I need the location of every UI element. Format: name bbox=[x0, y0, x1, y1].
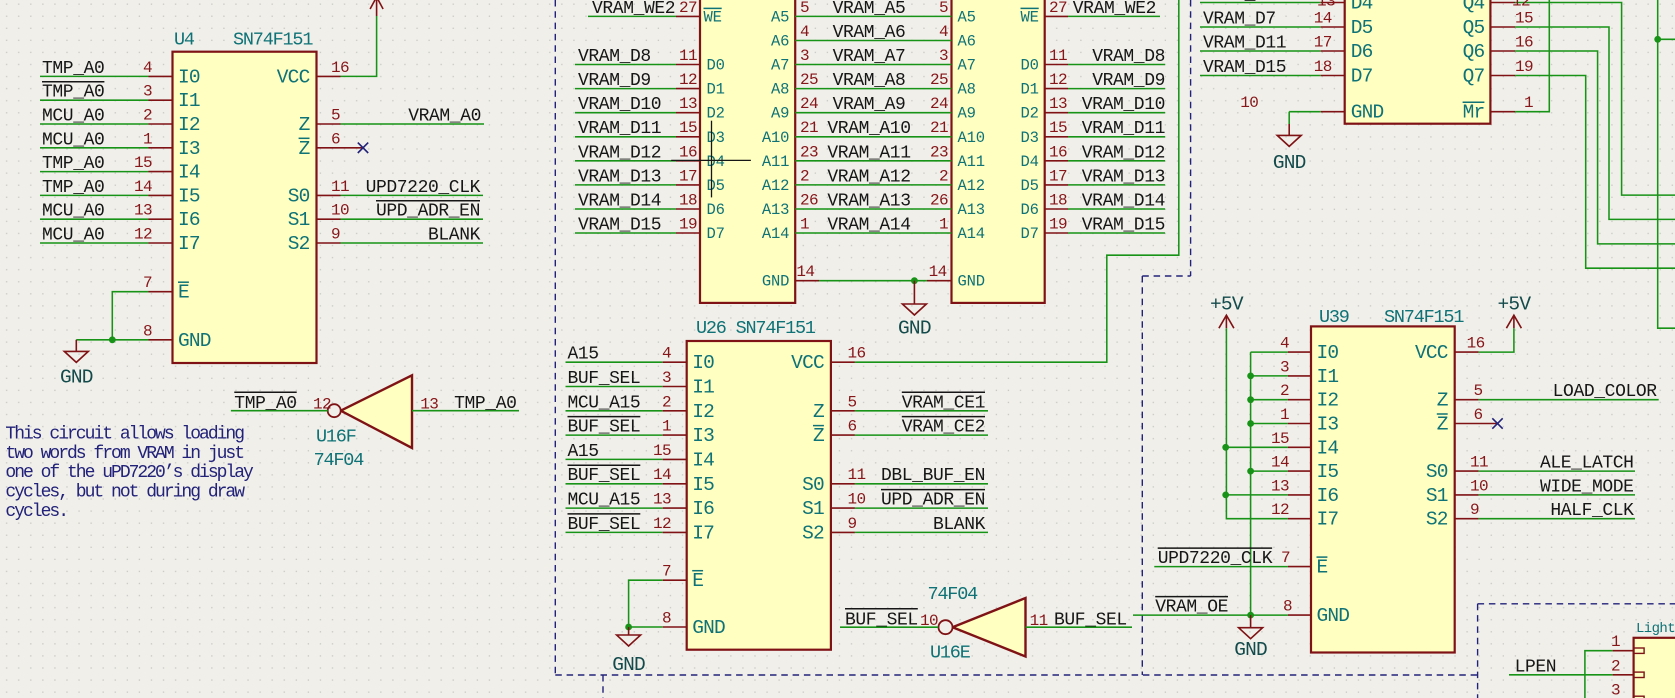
wire ground rail right vertical bbox=[1250, 352, 1252, 615]
connector pin 2 bbox=[1611, 657, 1644, 677]
svg-text:2: 2 bbox=[662, 393, 671, 411]
svg-text:4: 4 bbox=[1280, 335, 1289, 353]
label VRAM_D11 (right) bbox=[1082, 119, 1165, 139]
U26 pin 8 (GND) bbox=[629, 610, 725, 640]
svg-text:+5V: +5V bbox=[1210, 294, 1244, 316]
svg-text:27: 27 bbox=[1049, 0, 1067, 17]
svg-text:A7: A7 bbox=[958, 57, 976, 75]
svg-text:U16E: U16E bbox=[930, 643, 971, 664]
RAM2 pin 18 (D6) wire bbox=[1020, 192, 1165, 220]
svg-text:A12: A12 bbox=[958, 177, 985, 195]
svg-text:D7: D7 bbox=[1351, 66, 1373, 88]
svg-text:I3: I3 bbox=[692, 425, 714, 447]
svg-text:3: 3 bbox=[662, 369, 671, 387]
label BUF_SEL bbox=[568, 369, 641, 389]
register pin 13 number fragment bbox=[1317, 0, 1335, 11]
svg-text:D7: D7 bbox=[707, 225, 725, 243]
register pin 14 (D5) bbox=[1314, 10, 1373, 40]
svg-text:11: 11 bbox=[1049, 47, 1067, 65]
svg-text:TMP_A0: TMP_A0 bbox=[234, 394, 296, 414]
RAM2 pin 15 (D3) wire bbox=[1020, 119, 1165, 147]
svg-text:I7: I7 bbox=[1317, 509, 1339, 531]
svg-text:A9: A9 bbox=[958, 105, 976, 123]
RAM1 pin 15 (D3) bbox=[676, 119, 725, 147]
svg-text:MCU_A15: MCU_A15 bbox=[568, 491, 641, 511]
svg-text:VRAM_A5: VRAM_A5 bbox=[833, 0, 906, 19]
label TMP_A0 bbox=[42, 178, 104, 198]
RAM1/RAM2 A10 pins 21 bbox=[762, 119, 985, 147]
label VRAM_D8 (right) bbox=[1092, 47, 1165, 67]
label UPD_ADR_EN bbox=[881, 490, 985, 511]
svg-text:I4: I4 bbox=[692, 449, 714, 471]
svg-text:WE: WE bbox=[704, 8, 722, 26]
svg-text:6: 6 bbox=[331, 130, 340, 148]
label VRAM_D11 bbox=[1203, 34, 1286, 54]
U4 pin 9 (S2) wire bbox=[288, 226, 483, 256]
svg-text:13: 13 bbox=[134, 202, 152, 220]
svg-text:1: 1 bbox=[800, 216, 809, 234]
wire U16F pin 13 output TMP_A0 bbox=[412, 396, 519, 414]
svg-text:VRAM_A8: VRAM_A8 bbox=[833, 71, 906, 91]
svg-text:14: 14 bbox=[1271, 454, 1289, 472]
label VRAM_D12 bbox=[578, 143, 661, 163]
U26 pin 13 (I6) bbox=[653, 491, 714, 520]
RAM2 pin 27 (WE) wire VRAM_WE2 bbox=[1020, 0, 1160, 26]
svg-text:Z: Z bbox=[813, 401, 824, 423]
U39 pin 15 (I4) wire bbox=[1226, 430, 1339, 460]
svg-text:SN74F151: SN74F151 bbox=[1384, 307, 1464, 328]
svg-text:GND: GND bbox=[60, 366, 93, 388]
svg-text:1: 1 bbox=[143, 130, 152, 148]
svg-text:VRAM_A14: VRAM_A14 bbox=[827, 216, 910, 236]
svg-text:10: 10 bbox=[1240, 94, 1258, 112]
U26 pin 12 (I7) bbox=[653, 515, 714, 545]
svg-text:I2: I2 bbox=[178, 114, 200, 136]
label VRAM_WE2 (right) bbox=[1073, 0, 1156, 19]
svg-text:VRAM_D7: VRAM_D7 bbox=[1203, 10, 1276, 30]
label MCU_A15 bbox=[568, 491, 641, 511]
svg-text:I7: I7 bbox=[692, 522, 714, 544]
svg-text:I6: I6 bbox=[178, 209, 200, 231]
op-amp U4 body bbox=[173, 52, 317, 363]
label BUF_SEL bbox=[568, 514, 641, 535]
svg-text:5: 5 bbox=[1474, 382, 1483, 400]
junction at U26 ground bbox=[625, 624, 632, 631]
svg-text:8: 8 bbox=[1283, 598, 1292, 616]
svg-text:10: 10 bbox=[920, 612, 938, 630]
RAM1/RAM2 A6 pins 4 bbox=[771, 23, 976, 51]
label TMP_A0 (output) bbox=[454, 394, 516, 414]
label VRAM_WE2 bbox=[592, 0, 675, 19]
U39 pin 5 (Z) wire LOAD_COLOR bbox=[1437, 382, 1659, 412]
svg-text:A15: A15 bbox=[568, 442, 599, 462]
register pin 17 (D6) bbox=[1314, 34, 1373, 64]
svg-text:8: 8 bbox=[662, 610, 671, 628]
label VRAM_D9 (right) bbox=[1092, 71, 1165, 91]
U39 pin 9 (S2) wire bbox=[1426, 501, 1635, 531]
svg-text:3: 3 bbox=[939, 47, 948, 65]
svg-text:6: 6 bbox=[1474, 406, 1483, 424]
svg-text:VRAM_A6: VRAM_A6 bbox=[833, 23, 906, 43]
svg-text:A11: A11 bbox=[762, 153, 789, 171]
svg-text:A14: A14 bbox=[762, 225, 789, 243]
power +5V (right of U39) bbox=[1498, 294, 1532, 329]
svg-text:GND: GND bbox=[1317, 605, 1350, 627]
svg-text:D4: D4 bbox=[1351, 0, 1373, 15]
wire VRAM_D3 to register D4 bbox=[1200, 2, 1321, 4]
inverter U16F 74F04 bbox=[328, 375, 412, 448]
svg-text:5: 5 bbox=[800, 0, 809, 17]
no-connect X on U39 pin 6 bbox=[1492, 418, 1502, 428]
svg-text:D5: D5 bbox=[707, 177, 725, 195]
ground symbol GND (RAM) bbox=[898, 281, 931, 340]
svg-text:VRAM_A9: VRAM_A9 bbox=[833, 95, 906, 115]
svg-text:I1: I1 bbox=[178, 90, 200, 112]
svg-text:LOAD_COLOR: LOAD_COLOR bbox=[1553, 382, 1658, 402]
wire BUF_SELbar into U16E pin 10 bbox=[840, 612, 938, 630]
svg-text:VRAM_D10: VRAM_D10 bbox=[1082, 95, 1165, 115]
wire A15 to U26 pin 15 bbox=[566, 458, 663, 460]
wire A15 to U26 pin 4 bbox=[566, 361, 663, 363]
svg-text:GND: GND bbox=[612, 654, 645, 676]
RAM1/RAM2 A8 pins 25 bbox=[771, 71, 976, 99]
connector pin 1 bbox=[1611, 633, 1644, 653]
svg-text:25: 25 bbox=[800, 71, 818, 89]
svg-text:S2: S2 bbox=[802, 522, 824, 544]
wire BUF_SEL to U26 pin 3 bbox=[566, 386, 663, 388]
svg-text:5: 5 bbox=[331, 107, 340, 125]
svg-text:GND: GND bbox=[1273, 152, 1306, 174]
svg-text:BUF_SEL: BUF_SEL bbox=[845, 611, 918, 631]
svg-text:Z: Z bbox=[813, 425, 824, 447]
svg-text:GND: GND bbox=[958, 273, 985, 291]
svg-text:ALE_LATCH: ALE_LATCH bbox=[1540, 454, 1634, 474]
U4 pin 12 (I7) bbox=[134, 226, 200, 256]
svg-text:14: 14 bbox=[929, 263, 947, 281]
ground symbol GND (U4) bbox=[60, 340, 93, 389]
U4 title bbox=[174, 30, 313, 51]
svg-text:18: 18 bbox=[1314, 58, 1332, 76]
wire VRAM_D14 to RAM1 bbox=[575, 208, 676, 210]
label VRAM_A6 bbox=[833, 23, 906, 43]
svg-text:Q6: Q6 bbox=[1463, 41, 1485, 63]
U4 pin 3 (I1) bbox=[143, 83, 200, 113]
wire VRAM_D11 to RAM1 bbox=[575, 136, 676, 138]
svg-text:A8: A8 bbox=[958, 81, 976, 99]
svg-text:19: 19 bbox=[679, 216, 697, 234]
RAM1 pin 12 (D1) bbox=[676, 71, 725, 99]
svg-text:VRAM_A0: VRAM_A0 bbox=[408, 107, 481, 127]
note: circuit description text bbox=[5, 425, 254, 522]
svg-text:VRAM_D14: VRAM_D14 bbox=[1082, 192, 1165, 212]
svg-text:Q4: Q4 bbox=[1463, 0, 1485, 15]
svg-text:14: 14 bbox=[134, 178, 152, 196]
svg-text:U39: U39 bbox=[1319, 307, 1349, 328]
svg-text:5: 5 bbox=[939, 0, 948, 17]
sheet divider (top middle/right border) bbox=[1142, 0, 1190, 675]
wire VRAM_A7 between RAM chips bbox=[795, 64, 951, 66]
wire TMP_A0 to U4 pin 14 bbox=[40, 194, 149, 196]
svg-text:I5: I5 bbox=[692, 474, 714, 496]
svg-text:5: 5 bbox=[848, 393, 857, 411]
RAM2 pin 17 (D5) wire bbox=[1020, 167, 1165, 195]
register pin 18 (D7) bbox=[1314, 58, 1373, 88]
svg-text:23: 23 bbox=[930, 143, 948, 161]
RAM1 pin 11 (D0) bbox=[676, 47, 725, 75]
svg-text:VRAM_D13: VRAM_D13 bbox=[1082, 167, 1165, 187]
U16E designator 74F04 bbox=[928, 584, 979, 605]
svg-text:VRAM_CE2: VRAM_CE2 bbox=[902, 418, 985, 438]
register pin 13 (D4) bbox=[1314, 0, 1373, 15]
sheet divider (left section border) bbox=[555, 0, 1477, 675]
U4 pin 6 (Zbar) with no-connect bbox=[299, 130, 363, 160]
label A15 bbox=[568, 345, 599, 365]
svg-text:19: 19 bbox=[1515, 58, 1533, 76]
label VRAM_D3 bbox=[1203, 0, 1276, 5]
RAM1 pin 19 (D7) bbox=[676, 216, 725, 244]
wire BUF_SEL to U26 pin 1 bbox=[566, 434, 663, 436]
svg-text:D6: D6 bbox=[1020, 201, 1038, 219]
label VRAM_D8 bbox=[578, 47, 651, 67]
inverter U16E 74F04 bbox=[939, 598, 1026, 657]
U26 pin 3 (I1) bbox=[662, 369, 714, 399]
U26 pin 6 (Z) wire bbox=[813, 418, 988, 448]
svg-text:8: 8 bbox=[143, 322, 152, 340]
register pin 16 (Q6) wire to right edge bbox=[1463, 34, 1675, 244]
label UPD7220_CLK bbox=[366, 178, 481, 198]
wire VRAM_A11 between RAM chips bbox=[795, 160, 951, 162]
svg-text:S0: S0 bbox=[1426, 461, 1448, 483]
junction on +5V rail bbox=[1222, 492, 1229, 499]
svg-text:WIDE_MODE: WIDE_MODE bbox=[1540, 477, 1634, 497]
label BUF_SEL (output) bbox=[1054, 611, 1127, 631]
svg-text:2: 2 bbox=[800, 167, 809, 185]
svg-text:12: 12 bbox=[1271, 501, 1289, 519]
svg-text:A8: A8 bbox=[771, 81, 789, 99]
svg-text:D3: D3 bbox=[1020, 129, 1038, 147]
svg-text:MCU_A0: MCU_A0 bbox=[42, 107, 104, 127]
svg-text:13: 13 bbox=[653, 491, 671, 509]
label VRAM_A11 bbox=[827, 143, 910, 163]
label VRAM_D7 bbox=[1203, 10, 1276, 30]
svg-text:12: 12 bbox=[679, 71, 697, 89]
svg-text:Z: Z bbox=[299, 138, 310, 160]
label A15 bbox=[568, 442, 599, 462]
svg-text:VRAM_D3: VRAM_D3 bbox=[1203, 0, 1276, 5]
U4 pin 11 (S0) wire bbox=[288, 178, 483, 208]
label HALF_CLK bbox=[1550, 501, 1634, 521]
svg-text:13: 13 bbox=[1049, 95, 1067, 113]
sheet divider (light pen box) bbox=[1478, 604, 1675, 698]
wire MCU_A0 to U4 pin 12 bbox=[40, 242, 149, 244]
svg-text:14: 14 bbox=[653, 466, 671, 484]
svg-text:WE: WE bbox=[1020, 8, 1038, 26]
svg-text:I1: I1 bbox=[692, 377, 714, 399]
svg-text:I2: I2 bbox=[1317, 390, 1339, 412]
svg-text:13: 13 bbox=[679, 95, 697, 113]
U39 pin 7 (E) wire UPD7220_CLK bbox=[1154, 549, 1327, 579]
connector J? body bbox=[1634, 638, 1675, 698]
register pin 1 (Mr) wire from top bbox=[1463, 0, 1550, 124]
svg-text:S0: S0 bbox=[802, 474, 824, 496]
svg-text:16: 16 bbox=[848, 345, 866, 363]
svg-text:19: 19 bbox=[1049, 216, 1067, 234]
svg-text:S1: S1 bbox=[288, 209, 310, 231]
U39 pin 3 (I1) wire bbox=[1251, 358, 1339, 388]
U39 pin 12 (I7) wire bbox=[1271, 501, 1338, 531]
svg-text:VRAM_CE1: VRAM_CE1 bbox=[902, 393, 985, 413]
wire VRAM_A14 between RAM chips bbox=[795, 232, 951, 234]
svg-text:I6: I6 bbox=[692, 498, 714, 520]
wire VRAM_A10 between RAM chips bbox=[795, 136, 951, 138]
svg-text:VRAM_D12: VRAM_D12 bbox=[1082, 143, 1165, 163]
svg-text:D6: D6 bbox=[707, 201, 725, 219]
svg-text:D3: D3 bbox=[707, 129, 725, 147]
svg-text:A13: A13 bbox=[958, 201, 985, 219]
RAM1/RAM2 A11 pins 23 bbox=[762, 143, 985, 171]
label TMP_A0 bbox=[42, 154, 104, 174]
svg-text:D6: D6 bbox=[1351, 41, 1373, 63]
svg-text:16: 16 bbox=[1467, 335, 1485, 353]
RAM1/RAM2 A9 pins 24 bbox=[771, 95, 976, 123]
stray black line artifact bbox=[671, 121, 751, 198]
svg-text:A5: A5 bbox=[771, 8, 789, 26]
svg-text:11: 11 bbox=[848, 466, 866, 484]
svg-text:1: 1 bbox=[1524, 94, 1533, 112]
label ALE_LATCH bbox=[1540, 454, 1634, 474]
svg-text:D5: D5 bbox=[1351, 17, 1373, 39]
U39 pin 10 (S1) wire bbox=[1426, 477, 1635, 507]
svg-text:TMP_A0: TMP_A0 bbox=[454, 394, 516, 414]
svg-text:+5V: +5V bbox=[1498, 294, 1532, 316]
svg-text:4: 4 bbox=[800, 23, 809, 41]
U39 pin 11 (S0) wire bbox=[1426, 454, 1635, 484]
svg-text:S1: S1 bbox=[1426, 485, 1448, 507]
label VRAM_D13 bbox=[578, 167, 661, 187]
label UPD_ADR_EN bbox=[376, 201, 480, 222]
svg-text:U4: U4 bbox=[174, 30, 195, 51]
svg-text:DBL_BUF_EN: DBL_BUF_EN bbox=[881, 466, 985, 486]
svg-text:UPD_ADR_EN: UPD_ADR_EN bbox=[376, 202, 480, 222]
svg-text:VRAM_D9: VRAM_D9 bbox=[1092, 71, 1165, 91]
wire VRAM_A8 between RAM chips bbox=[795, 88, 951, 90]
svg-text:VCC: VCC bbox=[1415, 342, 1448, 364]
svg-text:16: 16 bbox=[1515, 34, 1533, 52]
svg-text:I5: I5 bbox=[1317, 461, 1339, 483]
wire VRAM_D10 to RAM1 bbox=[575, 112, 676, 114]
label MCU_A0 bbox=[42, 107, 104, 127]
junction at U4 ground bbox=[109, 336, 116, 343]
svg-text:16: 16 bbox=[331, 59, 349, 77]
svg-text:VRAM_A13: VRAM_A13 bbox=[827, 192, 910, 212]
svg-text:13: 13 bbox=[420, 396, 438, 414]
svg-text:I0: I0 bbox=[178, 66, 200, 88]
label VRAM_A7 bbox=[833, 47, 906, 67]
svg-text:10: 10 bbox=[1470, 477, 1488, 495]
svg-text:17: 17 bbox=[1314, 34, 1332, 52]
svg-text:D5: D5 bbox=[1020, 177, 1038, 195]
wire MCU_A0 to U4 pin 13 bbox=[40, 218, 149, 220]
svg-text:A15: A15 bbox=[568, 345, 599, 365]
RAM1 pin 17 (D5) bbox=[676, 167, 725, 195]
svg-text:2: 2 bbox=[1280, 382, 1289, 400]
svg-text:I4: I4 bbox=[178, 162, 200, 184]
RAM2 pin 16 (D4) wire bbox=[1020, 143, 1165, 171]
RAM1/RAM2 A12 pins 2 bbox=[762, 167, 985, 195]
svg-text:24: 24 bbox=[800, 95, 818, 113]
RAM chip U? (left) body bbox=[700, 0, 795, 303]
wire VRAM_A6 between RAM chips bbox=[795, 40, 951, 42]
svg-text:A6: A6 bbox=[771, 33, 789, 51]
U4 pin 10 (S1) wire bbox=[288, 202, 483, 232]
svg-text:E: E bbox=[1317, 557, 1328, 579]
svg-text:74F04: 74F04 bbox=[928, 584, 979, 605]
label BUF_SEL bbox=[568, 465, 641, 486]
svg-text:TMP_A0: TMP_A0 bbox=[42, 59, 104, 79]
svg-text:GND: GND bbox=[178, 330, 211, 352]
svg-text:I5: I5 bbox=[178, 185, 200, 207]
svg-text:U16F: U16F bbox=[316, 427, 356, 448]
svg-text:Q7: Q7 bbox=[1463, 66, 1485, 88]
svg-text:VCC: VCC bbox=[277, 66, 310, 88]
power +5V (left of U39) bbox=[1210, 294, 1244, 329]
svg-text:D0: D0 bbox=[707, 57, 725, 75]
svg-text:18: 18 bbox=[679, 192, 697, 210]
svg-text:Q5: Q5 bbox=[1463, 17, 1485, 39]
svg-text:16: 16 bbox=[679, 143, 697, 161]
register pin 12 number fragment bbox=[1512, 0, 1530, 11]
svg-text:11: 11 bbox=[679, 47, 697, 65]
svg-text:4: 4 bbox=[143, 59, 152, 77]
svg-text:BUF_SEL: BUF_SEL bbox=[568, 466, 641, 486]
wire VRAM_A12 between RAM chips bbox=[795, 184, 951, 186]
wire from connector pin 1 down bbox=[1585, 651, 1613, 698]
svg-text:VRAM_D11: VRAM_D11 bbox=[1082, 119, 1165, 139]
label BUF_SEL bbox=[568, 417, 641, 438]
power +5V (top, cut off) bbox=[370, 0, 383, 16]
wire MCU_A0 to U4 pin 2 bbox=[40, 123, 149, 125]
U39 pin 8 (GND) wire VRAM_OE bbox=[1133, 598, 1349, 628]
svg-text:U26 SN74F151: U26 SN74F151 bbox=[696, 318, 816, 339]
svg-text:3: 3 bbox=[800, 47, 809, 65]
register pin 10 (GND) wire bbox=[1240, 94, 1383, 124]
svg-text:A6: A6 bbox=[958, 33, 976, 51]
label MCU_A0 bbox=[42, 202, 104, 222]
U26 pin 5 (Z) wire bbox=[813, 393, 988, 423]
U26 pin 7 (E) wire to ground bbox=[629, 563, 704, 627]
svg-text:BUF_SEL: BUF_SEL bbox=[568, 418, 641, 438]
label VRAM_D13 (right) bbox=[1082, 167, 1165, 187]
label VRAM_A14 bbox=[827, 216, 910, 236]
svg-text:16: 16 bbox=[1049, 143, 1067, 161]
label VRAM_D9 bbox=[578, 71, 651, 91]
multiplexer U39 body bbox=[1311, 326, 1455, 652]
svg-text:VCC: VCC bbox=[791, 352, 824, 374]
RAM1 pin 16 (D4) bbox=[676, 143, 725, 171]
svg-text:7: 7 bbox=[662, 563, 671, 581]
svg-text:D7: D7 bbox=[1020, 225, 1038, 243]
wire VRAM_A5 between RAM chips bbox=[795, 15, 951, 17]
svg-text:1: 1 bbox=[939, 216, 948, 234]
svg-text:Z: Z bbox=[1437, 414, 1448, 436]
svg-text:Z: Z bbox=[299, 114, 310, 136]
label VRAM_D15 (right) bbox=[1082, 216, 1165, 236]
wire MCU_A0 to U4 pin 1 bbox=[40, 147, 149, 149]
svg-text:MCU_A0: MCU_A0 bbox=[42, 226, 104, 246]
U26 pin 11 (S0) wire bbox=[802, 466, 988, 496]
label MCU_A15 bbox=[568, 393, 641, 413]
ground symbol GND (U26) bbox=[612, 627, 645, 676]
